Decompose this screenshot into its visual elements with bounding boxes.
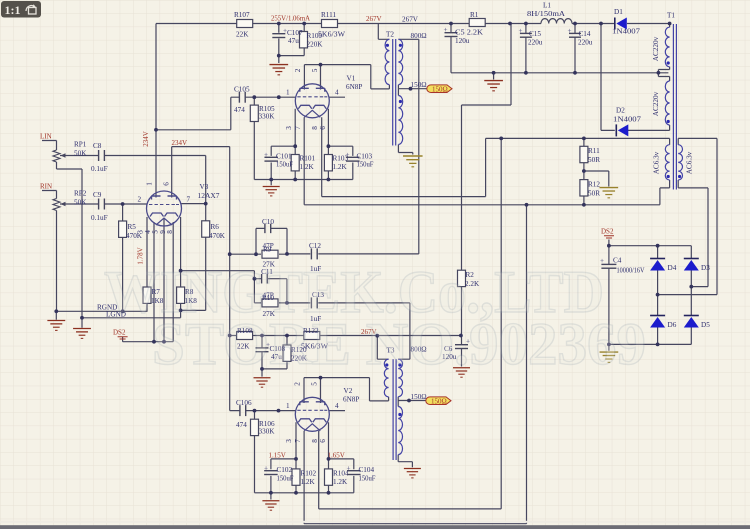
- svg-text:2: 2: [294, 68, 302, 72]
- svg-text:R102: R102: [301, 470, 317, 478]
- svg-text:6: 6: [319, 439, 327, 443]
- svg-text:V1: V1: [347, 75, 356, 83]
- svg-text:R109: R109: [307, 32, 323, 40]
- svg-text:234V: 234V: [142, 131, 150, 147]
- svg-text:1: 1: [146, 182, 154, 186]
- svg-text:D5: D5: [701, 321, 710, 329]
- svg-text:AC220v: AC220v: [652, 91, 660, 116]
- svg-text:+: +: [346, 151, 350, 159]
- svg-text:LIN: LIN: [40, 133, 52, 141]
- svg-text:6N8P: 6N8P: [343, 396, 359, 404]
- svg-text:6N8P: 6N8P: [346, 83, 362, 91]
- svg-text:R1: R1: [470, 11, 479, 19]
- svg-text:1:1: 1:1: [5, 3, 21, 17]
- svg-text:RP1: RP1: [74, 141, 87, 149]
- svg-text:7: 7: [294, 439, 302, 443]
- svg-text:8: 8: [166, 230, 174, 234]
- svg-text:234V: 234V: [172, 139, 188, 147]
- svg-text:10000/16V: 10000/16V: [617, 267, 646, 275]
- svg-text:3: 3: [285, 439, 293, 443]
- svg-text:2: 2: [138, 196, 142, 204]
- svg-text:C4: C4: [613, 257, 622, 265]
- svg-text:R111: R111: [321, 11, 336, 19]
- svg-text:5: 5: [311, 382, 319, 386]
- svg-text:8: 8: [311, 126, 319, 130]
- svg-text:220u: 220u: [528, 39, 543, 47]
- svg-text:150Ω: 150Ω: [431, 398, 447, 406]
- svg-text:50K: 50K: [74, 150, 87, 158]
- svg-text:C101: C101: [276, 153, 292, 161]
- svg-text:7: 7: [187, 196, 191, 204]
- svg-text:V2: V2: [344, 387, 353, 395]
- svg-text:267V: 267V: [366, 15, 382, 23]
- svg-text:3: 3: [285, 126, 293, 130]
- svg-text:C104: C104: [359, 466, 375, 474]
- svg-text:1.2K: 1.2K: [333, 478, 348, 486]
- svg-text:5K6/3W: 5K6/3W: [318, 31, 345, 39]
- svg-text:DS2: DS2: [601, 228, 614, 236]
- svg-text:AC6.3v: AC6.3v: [685, 151, 693, 174]
- svg-text:C107: C107: [287, 29, 303, 37]
- svg-text:D6: D6: [668, 321, 677, 329]
- svg-text:C8: C8: [93, 142, 102, 150]
- svg-text:7: 7: [294, 126, 302, 130]
- svg-text:D1: D1: [614, 8, 623, 16]
- svg-text:+: +: [264, 151, 268, 159]
- svg-text:AC220v: AC220v: [652, 36, 660, 61]
- svg-text:L1: L1: [543, 2, 551, 10]
- svg-text:C106: C106: [236, 399, 252, 407]
- svg-text:150uF: 150uF: [359, 475, 376, 483]
- svg-text:+: +: [568, 27, 572, 35]
- svg-text:R101: R101: [300, 155, 316, 163]
- svg-text:C10: C10: [262, 218, 274, 226]
- svg-text:150uF: 150uF: [276, 161, 293, 169]
- svg-text:R12: R12: [588, 181, 600, 189]
- svg-text:STORE NO.902369: STORE NO.902369: [152, 311, 646, 377]
- svg-text:22K: 22K: [236, 31, 249, 39]
- svg-text:6: 6: [162, 182, 170, 186]
- svg-text:2: 2: [294, 382, 302, 386]
- svg-text:D4: D4: [668, 264, 677, 272]
- svg-text:C5 2.2K: C5 2.2K: [455, 29, 484, 37]
- svg-text:+: +: [444, 26, 448, 34]
- svg-text:150Ω: 150Ω: [411, 393, 427, 401]
- svg-text:C103: C103: [357, 153, 373, 161]
- svg-text:V3: V3: [200, 183, 209, 191]
- svg-text:1.2K: 1.2K: [301, 478, 316, 486]
- svg-text:+: +: [264, 465, 268, 473]
- svg-text:150uF: 150uF: [277, 475, 294, 483]
- svg-text:255V/1.06mA: 255V/1.06mA: [271, 15, 310, 23]
- svg-text:330K: 330K: [259, 428, 276, 436]
- svg-text:R11: R11: [588, 147, 600, 155]
- svg-text:470K: 470K: [209, 232, 226, 240]
- svg-text:5: 5: [311, 68, 319, 72]
- svg-text:1N4007: 1N4007: [612, 28, 640, 36]
- svg-text:4: 4: [335, 402, 339, 410]
- svg-text:1N4007: 1N4007: [613, 116, 641, 124]
- svg-text:330K: 330K: [259, 113, 276, 121]
- svg-text:C102: C102: [277, 466, 293, 474]
- svg-text:1.15V: 1.15V: [269, 452, 286, 460]
- svg-text:C105: C105: [234, 86, 250, 94]
- svg-text:R107: R107: [234, 11, 250, 19]
- svg-text:+: +: [519, 27, 523, 35]
- svg-text:267V: 267V: [402, 16, 419, 24]
- svg-text:D2: D2: [616, 107, 625, 115]
- svg-text:47P: 47P: [263, 242, 274, 250]
- svg-text:1: 1: [286, 89, 290, 97]
- svg-text:50R: 50R: [588, 156, 600, 164]
- svg-text:12AX7: 12AX7: [198, 192, 220, 200]
- svg-text:150Ω: 150Ω: [411, 81, 427, 89]
- svg-text:220u: 220u: [578, 39, 593, 47]
- svg-text:220K: 220K: [307, 41, 324, 49]
- svg-text:C9: C9: [93, 191, 102, 199]
- svg-text:4: 4: [335, 89, 339, 97]
- svg-text:1: 1: [286, 402, 290, 410]
- svg-text:150uF: 150uF: [357, 161, 374, 169]
- svg-text:R6: R6: [211, 223, 220, 231]
- svg-text:6: 6: [319, 126, 327, 130]
- svg-text:T2: T2: [386, 31, 394, 39]
- svg-text:D3: D3: [701, 264, 710, 272]
- svg-text:1.2K: 1.2K: [300, 163, 315, 171]
- svg-text:RIN: RIN: [40, 183, 52, 191]
- svg-text:50K: 50K: [74, 199, 87, 207]
- svg-text:50R: 50R: [588, 190, 600, 198]
- svg-text:47u: 47u: [288, 37, 299, 45]
- svg-text:8H/150mA: 8H/150mA: [527, 10, 566, 18]
- svg-text:C14: C14: [579, 30, 591, 38]
- svg-text:800Ω: 800Ω: [411, 32, 427, 40]
- svg-text:120u: 120u: [455, 37, 470, 45]
- svg-text:474: 474: [234, 106, 245, 114]
- svg-text:R5: R5: [128, 223, 137, 231]
- svg-text:C15: C15: [529, 30, 541, 38]
- svg-text:DS2: DS2: [113, 329, 126, 337]
- svg-text:C12: C12: [309, 242, 321, 250]
- svg-text:T1: T1: [667, 12, 675, 20]
- svg-text:474: 474: [236, 421, 247, 429]
- svg-text:8: 8: [311, 439, 319, 443]
- svg-text:150Ω: 150Ω: [432, 86, 448, 94]
- svg-text:AC6.3v: AC6.3v: [653, 151, 661, 174]
- svg-text:0.1uF: 0.1uF: [91, 214, 108, 222]
- svg-text:RP2: RP2: [74, 190, 87, 198]
- svg-text:+: +: [347, 465, 351, 473]
- svg-text:1.2K: 1.2K: [333, 163, 348, 171]
- svg-text:0.1uF: 0.1uF: [91, 165, 108, 173]
